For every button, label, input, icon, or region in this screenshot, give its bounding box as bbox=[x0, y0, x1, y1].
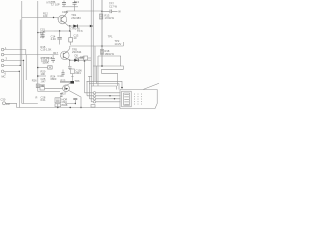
delay line DL1 box bbox=[71, 69, 75, 74]
diode D2 bbox=[74, 59, 78, 62]
diode D2 cathode bar bbox=[77, 59, 79, 62]
svg-text:2.4K: 2.4K bbox=[51, 37, 57, 41]
CRT socket outer box bbox=[120, 83, 159, 108]
svg-text:R26: R26 bbox=[32, 79, 37, 83]
wire double pair left of DL1 bbox=[60, 81, 70, 82]
capacitor C17 series plates bbox=[110, 10, 112, 14]
connector J1 pin 1 bbox=[1, 48, 4, 51]
capacitor C1 leads bbox=[42, 33, 44, 39]
wire lower rail y31 bbox=[54, 30, 70, 32]
capacitor C10 plates bbox=[61, 73, 64, 74]
wire vertical bus x91.2 bbox=[90, 0, 92, 86]
pin circle P4 bbox=[93, 101, 95, 103]
capacitor C8 lead bbox=[74, 1, 76, 7]
node dots on pin wires bbox=[109, 95, 110, 96]
resistor R18 series box on x102 bbox=[100, 50, 103, 55]
capacitor C7 plates bbox=[62, 3, 66, 5]
transistor Q2 body bbox=[61, 51, 70, 60]
wire vertical drop to Q1 base bbox=[57, 18, 60, 20]
CRT socket dashed column 3 bbox=[141, 94, 143, 106]
svg-text:3: 3 bbox=[6, 57, 8, 61]
capacitor C19 leads bbox=[52, 55, 54, 63]
wire vertical bus x102 bbox=[101, 0, 103, 66]
svg-text:180Ω W: 180Ω W bbox=[105, 52, 115, 56]
capacitor C3 electrolytic body bbox=[69, 38, 73, 43]
capacitor C28 plates bbox=[73, 98, 77, 99]
capacitor C1 plates mid-left bbox=[41, 35, 44, 36]
wire y11.5 tap right of bus bbox=[102, 10, 118, 12]
wire junction to pot bbox=[38, 67, 48, 69]
node pin5 junction dot bbox=[19, 71, 20, 72]
svg-text:TP-6: TP-6 bbox=[77, 29, 83, 33]
pin circle P2 bbox=[93, 95, 95, 97]
node emitter dot bbox=[69, 60, 70, 61]
wire Q3 collector up bbox=[65, 83, 71, 87]
transistor Q1 body bbox=[58, 15, 67, 24]
wire pin P4 to socket bbox=[96, 101, 121, 103]
node bus junction at x38 bbox=[37, 32, 39, 34]
wire stub y76.4 bbox=[88, 75, 92, 77]
capacitor C30 polarized circle bbox=[3, 102, 6, 105]
svg-text:C7 10P: C7 10P bbox=[51, 3, 60, 7]
potentiometer R20 marks bbox=[49, 66, 52, 68]
resistor R13 series box on x102 bbox=[99, 14, 102, 19]
wire pin P1 to socket bbox=[96, 92, 121, 94]
node dot y66 x102 bbox=[101, 65, 103, 67]
connector J1 pin 5 bbox=[1, 70, 4, 73]
wire bottom rail y107.5 bbox=[17, 107, 121, 109]
svg-text:C17 W: C17 W bbox=[109, 4, 117, 8]
capacitor C19 plates bbox=[51, 59, 55, 61]
node collector rail dot bbox=[101, 11, 103, 13]
svg-text:2SC634: 2SC634 bbox=[72, 50, 82, 54]
wire pin3 to bus bbox=[4, 59, 24, 61]
wire Q1 emitter diagonal bbox=[65, 23, 69, 26]
wire bundle return y81.3 bbox=[87, 81, 122, 87]
transistor Q2 internals bbox=[63, 52, 67, 59]
svg-text:W: W bbox=[118, 10, 121, 14]
resistor R26 box bbox=[40, 87, 45, 90]
svg-text:R27: R27 bbox=[62, 92, 67, 96]
svg-text:100: 100 bbox=[43, 14, 48, 18]
svg-text:C383: C383 bbox=[62, 10, 69, 14]
svg-text:172Ω W: 172Ω W bbox=[105, 16, 115, 20]
wire emitter run bbox=[69, 25, 91, 27]
svg-text:220K: 220K bbox=[43, 61, 49, 65]
arrowhead into bus bbox=[90, 25, 94, 28]
svg-text:100: 100 bbox=[40, 35, 45, 39]
wire bundle U1 y66 bbox=[93, 66, 123, 69]
node rail y46 dot at x102 bbox=[101, 45, 103, 47]
svg-text:C30: C30 bbox=[1, 98, 6, 102]
supply stub arrow up bbox=[122, 42, 124, 46]
transistor Q3 emitter arrow blob bbox=[65, 88, 68, 90]
capacitor C10 lead bbox=[62, 70, 64, 78]
node emitter rail dot bbox=[80, 107, 81, 108]
yoke plug small box bbox=[84, 56, 88, 60]
wire Q2 emitter diagonal bbox=[67, 59, 69, 60]
callout box around C21 bbox=[42, 58, 49, 62]
connector J1 pin 2 bbox=[1, 53, 4, 56]
CRT socket dashed column 1 bbox=[134, 94, 136, 106]
wire rail y103.5 bbox=[22, 103, 38, 105]
capacitor C8 plates bbox=[73, 3, 77, 5]
wire pin P3 to socket bbox=[96, 98, 121, 100]
svg-text:DR4: DR4 bbox=[76, 71, 82, 75]
wire vertical bus x19.3 bbox=[18, 71, 20, 107]
transistor Q1 internals bbox=[61, 16, 65, 23]
capacitor C28 lead bbox=[74, 100, 76, 104]
svg-text:1K: 1K bbox=[41, 84, 44, 88]
node lower rail dot bbox=[69, 30, 70, 31]
wire vertical bus x23.5 bbox=[23, 60, 25, 103]
node pin4 junction dot bbox=[20, 65, 21, 66]
wire Q1 collector to top rail bbox=[65, 11, 67, 16]
svg-text:0.01: 0.01 bbox=[41, 98, 47, 102]
svg-text:TP1: TP1 bbox=[108, 34, 113, 38]
wire pin P2 to socket bbox=[96, 95, 121, 97]
svg-text:1: 1 bbox=[5, 46, 7, 50]
wire bundle y56 run bbox=[98, 56, 121, 66]
node dot below yoke box bbox=[84, 60, 86, 62]
wire y91.5 to R27 bbox=[38, 91, 60, 93]
wire top horizontal to Q1 base bbox=[22, 17, 58, 19]
svg-text:13.2V: 13.2V bbox=[115, 42, 122, 46]
wire Q3 emitter down diagonal bbox=[68, 90, 81, 107]
diode D1 bbox=[73, 25, 77, 28]
svg-text:R13: R13 bbox=[74, 0, 79, 4]
pin circle P3 bbox=[93, 98, 95, 100]
resistor R14 series box on x38 bbox=[36, 84, 39, 88]
capacitor C7 top lead bbox=[63, 1, 65, 7]
oscillator coil T1 marks bbox=[56, 99, 60, 102]
svg-text:.047: .047 bbox=[41, 79, 47, 83]
wire Q2 collector riser bbox=[67, 46, 70, 52]
pin circle P1 bbox=[93, 92, 95, 94]
svg-text:10K: 10K bbox=[41, 72, 46, 76]
dark blob component at collector bbox=[70, 81, 74, 84]
CRT socket pin bars bbox=[124, 94, 129, 104]
svg-text:1M: 1M bbox=[6, 102, 10, 106]
wire bundle x95 segment bbox=[94, 46, 96, 81]
connector J1 pin 3 bbox=[1, 59, 4, 62]
connector J1 pin 4 bbox=[1, 64, 4, 67]
wire bundle U2 y69.3 down bbox=[102, 69, 118, 86]
wire collector rail to bus bbox=[67, 10, 103, 12]
node pin3 junction dot bbox=[23, 60, 24, 61]
node base junction dot bbox=[53, 17, 54, 18]
capacitor C3 leads bbox=[70, 31, 72, 45]
wire riser emitter to lower rail bbox=[69, 26, 71, 31]
node emitter junction dot bbox=[69, 25, 70, 26]
wire pin5 to bus bbox=[4, 70, 19, 72]
svg-text:4(F): 4(F) bbox=[80, 55, 85, 59]
svg-text:6800: 6800 bbox=[51, 77, 57, 81]
wire C30 stub bbox=[6, 103, 17, 107]
resistor R13 marks bbox=[100, 15, 102, 18]
CRT socket inner box 1 bbox=[122, 91, 132, 107]
wire vertical bus x38 bbox=[37, 1, 39, 84]
wire pin4 to bus bbox=[4, 64, 20, 66]
wire bundle x96.6 segment bbox=[96, 66, 98, 84]
resistor R18 marks bbox=[101, 51, 103, 54]
wire pins feed left bbox=[85, 93, 94, 102]
wire pin2 line to Q2 base bbox=[4, 54, 59, 56]
svg-text:R25: R25 bbox=[61, 78, 66, 82]
wire box stub bbox=[88, 57, 92, 59]
wire bundle x98 segment bbox=[97, 56, 99, 86]
svg-text:MC: MC bbox=[2, 75, 6, 79]
wire vertical segment x26 bbox=[25, 55, 27, 80]
delay line DL1 lead bbox=[71, 74, 73, 81]
capacitor C2 plates bbox=[57, 37, 61, 39]
svg-text:2SC383: 2SC383 bbox=[71, 16, 81, 20]
wire coil to rails bbox=[58, 104, 76, 108]
capacitor C2 lead bbox=[59, 31, 61, 45]
node junction x38 y76 bbox=[37, 75, 39, 77]
diode D1 cathode bar bbox=[77, 25, 79, 28]
wire pin1 to corner bbox=[4, 50, 26, 55]
wire tap to collector line bbox=[74, 7, 76, 11]
wire cluster left verticals bbox=[85, 60, 92, 102]
wire bundle return y83.5 bbox=[89, 84, 119, 90]
wire y76 stub right bbox=[38, 75, 46, 77]
wire left vertical bus x20.3 bbox=[19, 20, 21, 66]
svg-text:C10: C10 bbox=[58, 74, 63, 78]
wire left vertical bus x21.5 bbox=[21, 1, 23, 104]
wire collector rail y46 bbox=[70, 45, 124, 47]
oscillator coil T1 box lower bbox=[55, 104, 61, 107]
node dot x122 y87.6 bbox=[121, 87, 123, 89]
wire bundle return y86 bbox=[91, 86, 116, 90]
node junction x38 y67.5 bbox=[37, 67, 39, 69]
svg-text:C19 1.5K: C19 1.5K bbox=[41, 48, 52, 52]
ground bars left of Q3 bbox=[60, 94, 63, 97]
resistor R14 marks bbox=[37, 85, 39, 87]
svg-text:TR6: TR6 bbox=[75, 79, 80, 83]
wire vertical bus x38 lower bbox=[37, 88, 39, 92]
CRT socket inner box 2 bbox=[124, 93, 130, 105]
potentiometer R20 box bbox=[48, 66, 53, 69]
capacitor C22 below emitter bbox=[68, 60, 72, 70]
svg-text:R: R bbox=[36, 96, 38, 100]
wire emitter run y60 bbox=[70, 59, 92, 61]
oscillator coil T1 box upper bbox=[55, 98, 61, 103]
svg-text:8048: 8048 bbox=[62, 103, 68, 107]
CRT socket dashed column 2 bbox=[137, 94, 139, 106]
wire y32.5 from bus junction bbox=[38, 31, 54, 33]
svg-text:R17: R17 bbox=[53, 51, 58, 55]
node rail dot at C2 bbox=[59, 30, 60, 31]
node dots bottom rail bbox=[57, 107, 58, 108]
small box under cluster bbox=[91, 105, 95, 108]
wire vertical bus x93.2 bbox=[92, 0, 94, 86]
transistor Q3 internals bbox=[64, 86, 66, 90]
wire cap bottom rail bbox=[62, 6, 78, 8]
wire Q3 base bbox=[45, 87, 63, 89]
transistor Q3 body bbox=[63, 85, 70, 92]
